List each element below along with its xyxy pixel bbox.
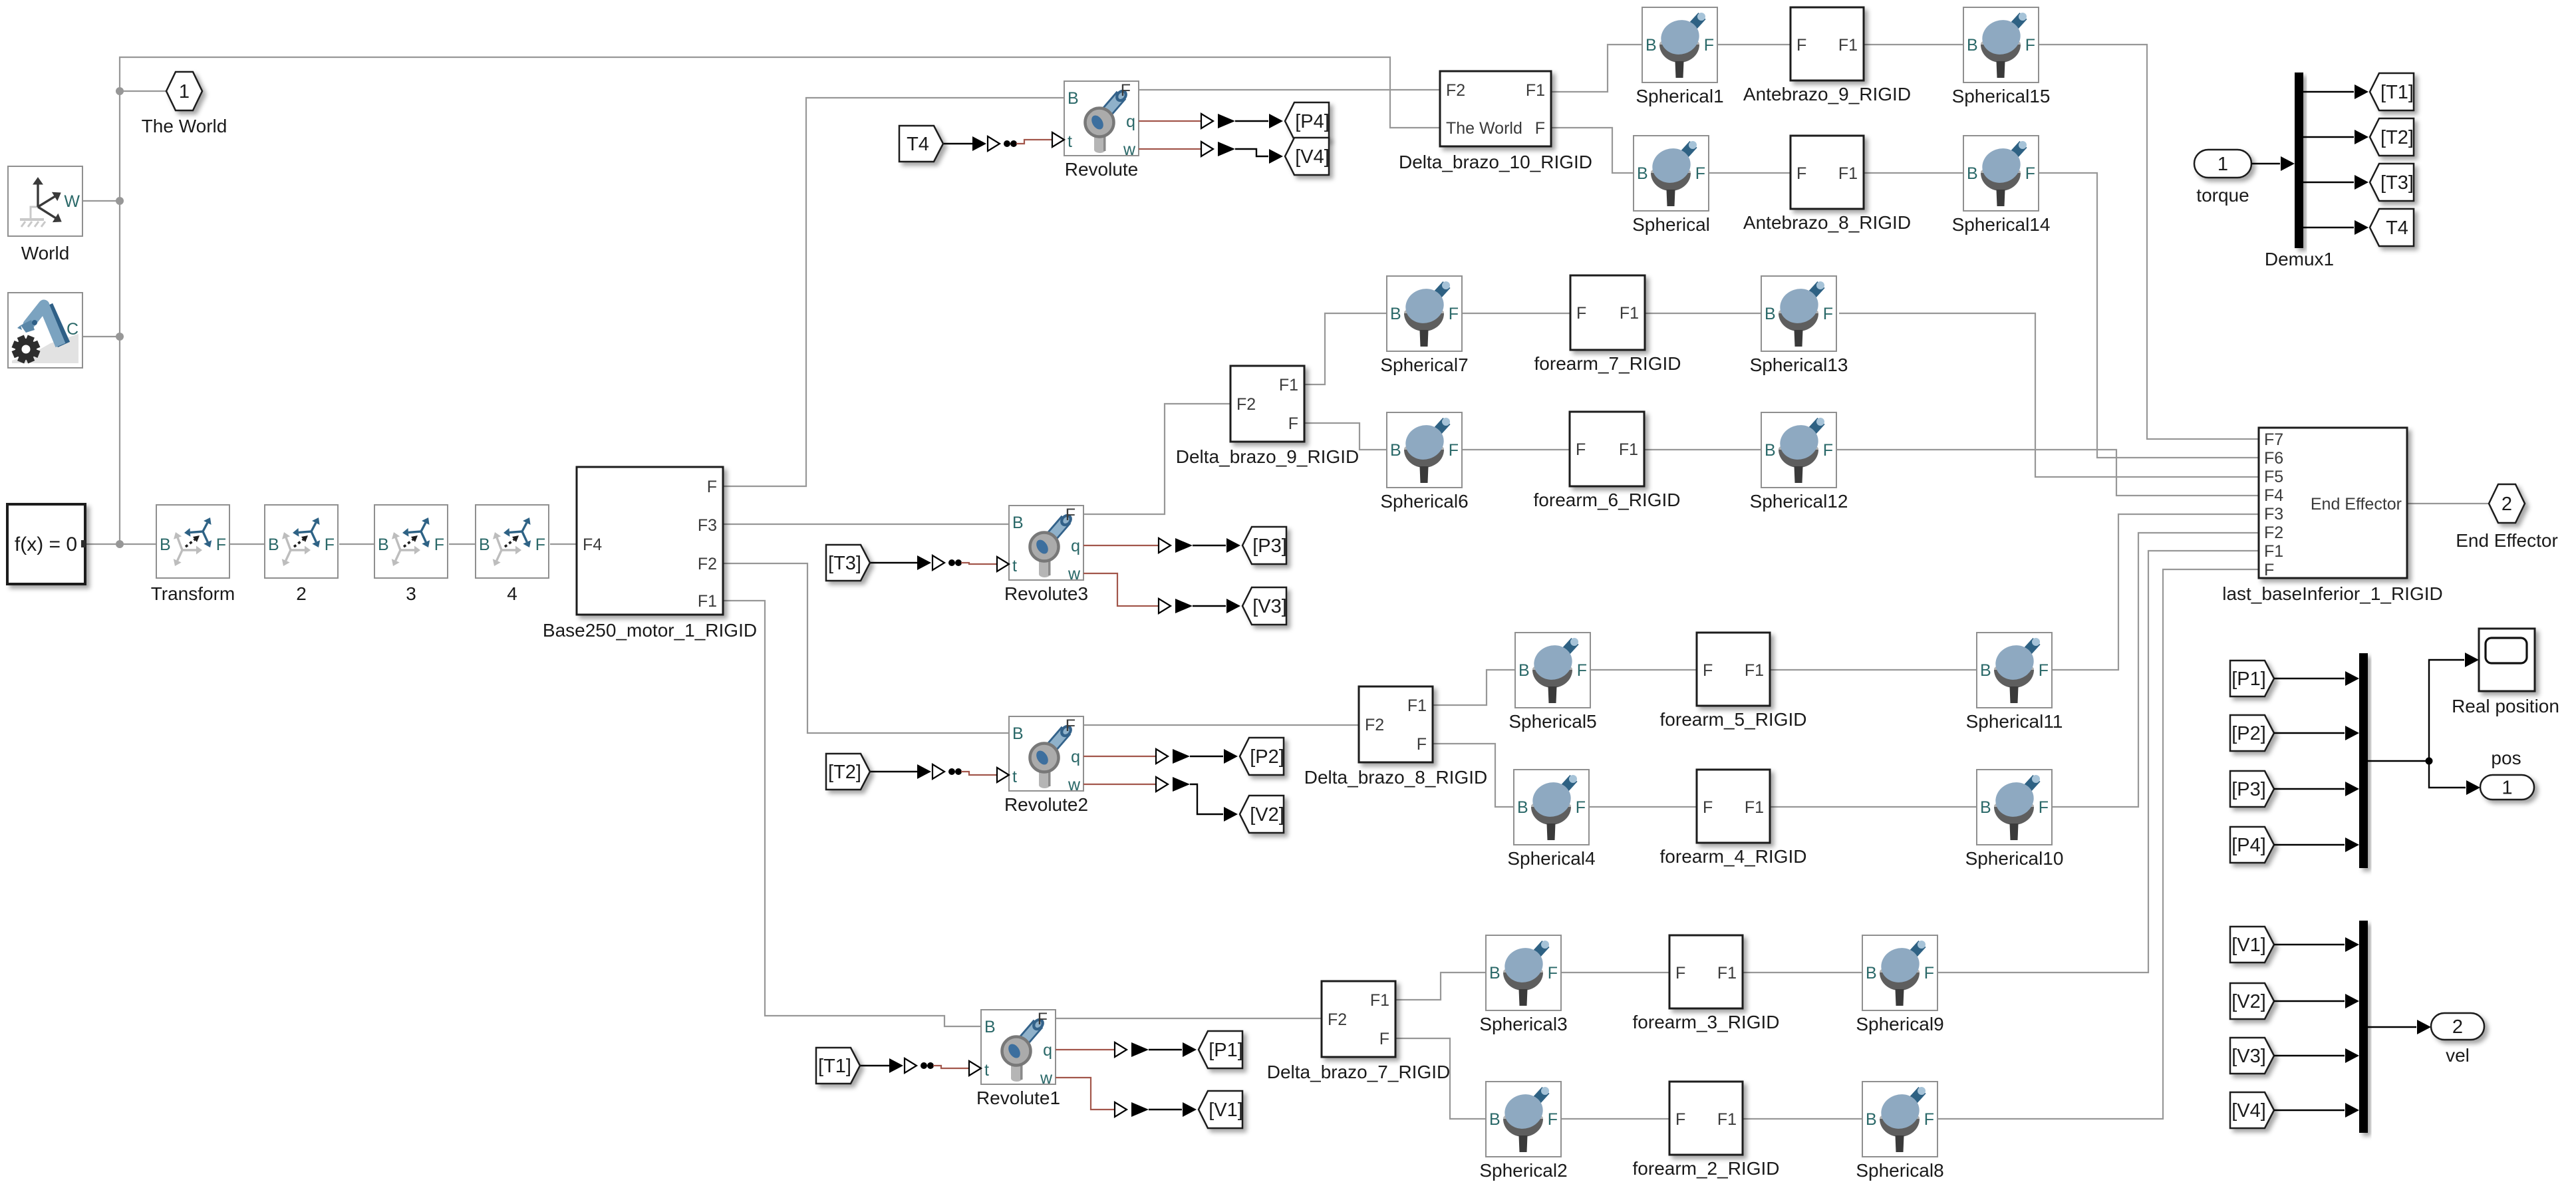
- svg-text:[V2]: [V2]: [2231, 991, 2266, 1012]
- svg-text:B: B: [1068, 89, 1079, 108]
- svg-text:forearm_5_RIGID: forearm_5_RIGID: [1660, 709, 1807, 730]
- svg-text:[V1]: [V1]: [1209, 1100, 1243, 1121]
- signal wire Revolute2 w to [V2]: [1083, 777, 1238, 822]
- goto tag [P2]: [1240, 738, 1284, 775]
- svg-text:2: 2: [2502, 494, 2512, 515]
- svg-text:F: F: [1417, 735, 1427, 754]
- rigid body last_baseInferior_1_RIGID: [2222, 428, 2443, 604]
- rigid body forearm_2_RIGID: [1633, 1082, 1780, 1179]
- svg-text:Spherical11: Spherical11: [1966, 711, 2063, 732]
- wire Base250 F to Revolute B: [723, 98, 1064, 486]
- svg-text:B: B: [378, 535, 389, 554]
- wire 3 F to 4 B: [449, 543, 476, 545]
- spherical joint Spherical1: [1636, 7, 1723, 106]
- svg-text:Spherical13: Spherical13: [1750, 355, 1848, 375]
- svg-text:t: t: [984, 1061, 989, 1080]
- wire Delta_brazo_8 F1 to Spherical5 B: [1433, 670, 1515, 705]
- revolute joint Revolute: [1064, 81, 1139, 180]
- svg-text:F1: F1: [2264, 542, 2283, 561]
- svg-text:Demux1: Demux1: [2265, 249, 2334, 269]
- wire Spherical12 F to last_base F4: [1836, 450, 2259, 496]
- svg-text:Spherical1: Spherical1: [1636, 86, 1723, 106]
- svg-text:w: w: [1040, 1069, 1053, 1088]
- svg-text:4: 4: [507, 583, 517, 604]
- revolute joint Revolute1: [976, 1010, 1060, 1108]
- goto tag [P4]: [1285, 102, 1330, 140]
- signal wire [P1] to mux: [2274, 671, 2359, 686]
- wire solver to Transform B: [85, 543, 156, 545]
- svg-text:F: F: [1823, 441, 1833, 460]
- wire Spherical9 F to last_base F1: [1937, 551, 2259, 973]
- svg-text:F3: F3: [698, 516, 717, 535]
- svg-text:Spherical7: Spherical7: [1380, 355, 1468, 375]
- output port 2 End Effector: [2456, 484, 2558, 551]
- wire Mechanism C to trunk: [82, 336, 120, 337]
- wire Delta_brazo_8 F to Spherical4 B: [1433, 744, 1514, 807]
- rigid body forearm_3_RIGID: [1633, 935, 1780, 1032]
- revolute joint Revolute3: [1004, 506, 1088, 604]
- svg-text:F2: F2: [1446, 81, 1465, 100]
- svg-text:B: B: [1967, 164, 1978, 183]
- svg-text:1: 1: [179, 81, 190, 102]
- svg-text:F1: F1: [1838, 164, 1858, 183]
- svg-text:forearm_3_RIGID: forearm_3_RIGID: [1633, 1012, 1780, 1032]
- wire Delta_brazo_7 F to Spherical2 B: [1395, 1038, 1486, 1119]
- svg-text:w: w: [1123, 140, 1136, 159]
- svg-text:F: F: [1548, 964, 1558, 982]
- svg-text:F: F: [1796, 164, 1806, 183]
- svg-text:[V3]: [V3]: [1252, 596, 1287, 617]
- subsystem Delta_brazo_10_RIGID: [1399, 71, 1592, 172]
- svg-text:F: F: [707, 478, 717, 496]
- svg-text:F1: F1: [1745, 798, 1764, 817]
- svg-text:Revolute2: Revolute2: [1004, 794, 1088, 815]
- from tag [V2]: [2230, 983, 2274, 1019]
- svg-text:F4: F4: [583, 535, 602, 554]
- svg-text:F: F: [1924, 964, 1934, 982]
- svg-text:F2: F2: [1328, 1010, 1347, 1029]
- signal wire [V2] to mux: [2274, 994, 2359, 1008]
- wire Revolute F to Delta_brazo_10 F2: [1139, 89, 1440, 90]
- svg-text:F: F: [1695, 164, 1705, 183]
- svg-text:F1: F1: [1717, 964, 1737, 982]
- wire Base250 F2 to Revolute2 B: [723, 563, 1009, 733]
- rigid body forearm_5_RIGID: [1660, 633, 1807, 730]
- svg-text:B: B: [1646, 36, 1657, 55]
- svg-text:F6: F6: [2264, 449, 2283, 468]
- svg-text:Spherical14: Spherical14: [1952, 214, 2051, 235]
- svg-text:[V4]: [V4]: [1295, 146, 1330, 168]
- signal wire [T1] to t: [860, 1058, 981, 1076]
- spherical joint Spherical12: [1750, 412, 1848, 512]
- svg-text:F1: F1: [1407, 696, 1427, 715]
- mux positions: [2359, 653, 2368, 868]
- svg-text:B: B: [1517, 798, 1528, 817]
- svg-text:Spherical5: Spherical5: [1508, 711, 1596, 732]
- svg-text:[P2]: [P2]: [2231, 723, 2266, 744]
- signal wire Demux1 to T4: [2303, 220, 2368, 235]
- goto tag [V1]: [1199, 1091, 1243, 1128]
- wire Revolute2 F to Delta_brazo_8 F2: [1083, 724, 1359, 726]
- svg-text:F: F: [1449, 441, 1459, 460]
- svg-text:F1: F1: [1370, 991, 1389, 1010]
- svg-text:B: B: [1866, 1110, 1877, 1129]
- svg-text:forearm_6_RIGID: forearm_6_RIGID: [1534, 490, 1681, 510]
- from tag [T1]: [816, 1048, 860, 1084]
- goto tag [P1]: [1199, 1031, 1243, 1068]
- svg-text:[T2]: [T2]: [2380, 127, 2414, 148]
- svg-text:Spherical10: Spherical10: [1965, 848, 2064, 869]
- spherical joint Spherical9: [1856, 935, 1943, 1034]
- wire Delta_brazo_10 F to Spherical B: [1551, 128, 1634, 173]
- demux Demux1: [2265, 73, 2334, 269]
- rigid body Base250_motor_1_RIGID: [543, 467, 757, 641]
- from tag [T3]: [826, 545, 870, 581]
- signal wire [P3] to mux: [2274, 782, 2359, 796]
- svg-text:F: F: [1576, 798, 1586, 817]
- wire Spherical10 F to last_base F2: [2052, 533, 2259, 807]
- svg-text:Spherical4: Spherical4: [1507, 848, 1595, 869]
- svg-text:forearm_7_RIGID: forearm_7_RIGID: [1534, 353, 1681, 374]
- signal wire Revolute q to [P4]: [1139, 114, 1283, 128]
- from tag T4: [899, 126, 943, 162]
- svg-text:F: F: [1548, 1110, 1558, 1129]
- transform block 4: [476, 505, 549, 604]
- svg-text:F2: F2: [2264, 524, 2283, 542]
- svg-text:[V1]: [V1]: [2231, 935, 2266, 956]
- svg-text:1: 1: [2502, 778, 2512, 799]
- wire Antebrazo_8 F1 to Spherical14 B: [1864, 172, 1963, 174]
- svg-text:B: B: [1980, 798, 1991, 817]
- signal wire Demux1 to [T1]: [2303, 84, 2368, 99]
- svg-text:The World: The World: [1446, 119, 1522, 138]
- wire forearm_4 F1 to Spherical10 B: [1770, 806, 1977, 808]
- subsystem Delta_brazo_7_RIGID: [1267, 981, 1450, 1082]
- rigid body forearm_4_RIGID: [1660, 770, 1807, 867]
- svg-text:B: B: [160, 535, 171, 554]
- svg-text:pos: pos: [2491, 748, 2521, 768]
- svg-text:F1: F1: [1526, 81, 1545, 100]
- svg-text:[T3]: [T3]: [828, 553, 861, 574]
- signal wire torque to Demux1: [2251, 156, 2295, 171]
- svg-text:[V3]: [V3]: [2231, 1046, 2266, 1067]
- solver block f(x)=0: [7, 504, 86, 584]
- svg-text:Delta_brazo_10_RIGID: Delta_brazo_10_RIGID: [1399, 152, 1592, 172]
- svg-text:F: F: [1066, 716, 1075, 735]
- wire Delta_brazo_7 F1 to Spherical3 B: [1395, 973, 1486, 1000]
- svg-text:F: F: [1675, 1110, 1685, 1129]
- subsystem Delta_brazo_8_RIGID: [1304, 686, 1487, 788]
- svg-text:F: F: [1379, 1030, 1389, 1048]
- svg-text:F7: F7: [2264, 430, 2283, 449]
- svg-text:Base250_motor_1_RIGID: Base250_motor_1_RIGID: [543, 620, 757, 641]
- svg-text:B: B: [1390, 441, 1401, 460]
- signal wire [P4] to mux: [2274, 837, 2359, 852]
- svg-text:B: B: [1637, 164, 1648, 183]
- svg-text:2: 2: [2452, 1016, 2463, 1038]
- svg-text:B: B: [1390, 305, 1401, 323]
- svg-text:t: t: [1012, 768, 1017, 786]
- transform block 3: [374, 505, 448, 604]
- spherical joint Spherical15: [1952, 7, 2051, 106]
- scope Real position: [2452, 629, 2559, 716]
- svg-text:[T3]: [T3]: [2380, 172, 2414, 194]
- svg-text:t: t: [1068, 132, 1072, 151]
- svg-text:F: F: [216, 535, 226, 554]
- spherical joint Spherical11: [1966, 633, 2063, 732]
- svg-text:B: B: [268, 535, 279, 554]
- goto tag [T2]: [2370, 118, 2414, 156]
- svg-text:The World: The World: [142, 116, 227, 136]
- svg-text:F: F: [2264, 561, 2274, 579]
- svg-text:Antebrazo_8_RIGID: Antebrazo_8_RIGID: [1743, 212, 1911, 233]
- svg-text:Transform: Transform: [151, 583, 235, 604]
- spherical joint Spherical7: [1380, 276, 1468, 375]
- svg-text:F: F: [1038, 1010, 1048, 1028]
- svg-text:q: q: [1043, 1041, 1052, 1060]
- svg-text:T4: T4: [907, 134, 929, 155]
- goto tag [T1]: [2370, 73, 2414, 110]
- wire Spherical11 F to last_base F3: [2052, 514, 2259, 670]
- svg-text:[P3]: [P3]: [2231, 779, 2266, 800]
- wire world trunk to Delta_brazo_10 The World port: [120, 57, 1440, 544]
- svg-text:B: B: [1012, 514, 1024, 532]
- svg-text:[T1]: [T1]: [2380, 82, 2414, 103]
- svg-text:B: B: [1765, 441, 1776, 460]
- from tag [V1]: [2230, 927, 2274, 963]
- svg-text:F: F: [535, 535, 545, 554]
- svg-text:forearm_2_RIGID: forearm_2_RIGID: [1633, 1158, 1780, 1179]
- svg-text:F: F: [434, 535, 444, 554]
- svg-text:[V4]: [V4]: [2231, 1100, 2266, 1122]
- wire Spherical14 F to last_base F6: [2039, 173, 2259, 458]
- output port 2 vel: [2431, 1013, 2484, 1066]
- from tag [T2]: [826, 754, 870, 790]
- svg-text:1: 1: [2218, 154, 2228, 175]
- signal wire Revolute w to [V4]: [1139, 142, 1283, 164]
- svg-text:Delta_brazo_9_RIGID: Delta_brazo_9_RIGID: [1176, 446, 1359, 467]
- wire Delta_brazo_9 F1 to Spherical7 B: [1304, 313, 1387, 384]
- svg-text:Spherical6: Spherical6: [1380, 491, 1468, 512]
- svg-text:F: F: [1703, 661, 1713, 680]
- wire last_base End Effector to port 2: [2407, 503, 2489, 504]
- svg-text:B: B: [1489, 1110, 1501, 1129]
- svg-text:F: F: [1577, 661, 1587, 680]
- signal wire Demux1 to [T2]: [2303, 130, 2368, 144]
- svg-text:f(x) = 0: f(x) = 0: [15, 533, 77, 555]
- svg-text:B: B: [1489, 964, 1501, 982]
- svg-text:F3: F3: [2264, 505, 2283, 524]
- svg-text:F1: F1: [1620, 304, 1639, 323]
- wire Spherical2 F to forearm_2 F: [1561, 1118, 1669, 1120]
- wire Spherical3 F to forearm_3 F: [1561, 972, 1669, 973]
- svg-text:Spherical15: Spherical15: [1952, 86, 2051, 106]
- svg-text:Spherical2: Spherical2: [1479, 1160, 1567, 1181]
- svg-text:World: World: [21, 243, 70, 263]
- transform block 2: [265, 505, 338, 604]
- wire Base250 F3 to Revolute3 B: [723, 524, 1009, 525]
- signal wire Revolute2 q to [P2]: [1083, 749, 1238, 764]
- goto tag [V2]: [1240, 796, 1284, 833]
- wire Revolute3 F to Delta_brazo_9 F2: [1083, 404, 1230, 514]
- svg-text:F: F: [1675, 964, 1685, 982]
- wire Spherical F to Antebrazo_8 F: [1709, 172, 1790, 174]
- svg-text:w: w: [1068, 776, 1081, 794]
- wire World W to trunk: [82, 200, 120, 202]
- svg-text:w: w: [1068, 565, 1081, 583]
- from tag [V4]: [2230, 1092, 2274, 1128]
- signal wire Revolute1 w to [V1]: [1056, 1078, 1197, 1117]
- signal wire Demux1 to [T3]: [2303, 175, 2368, 190]
- svg-text:F: F: [1576, 440, 1586, 459]
- wire Spherical1 F to Antebrazo_9 F: [1717, 44, 1790, 45]
- rigid body Antebrazo_9_RIGID: [1743, 7, 1911, 104]
- wire Revolute1 F to Delta_brazo_7 F2: [1056, 1018, 1322, 1019]
- wire Spherical6 F to forearm_6 F: [1462, 449, 1570, 450]
- spherical joint Spherical8: [1856, 1082, 1943, 1181]
- svg-text:Spherical8: Spherical8: [1856, 1160, 1943, 1181]
- wire Spherical15 F to last_base F7: [2039, 45, 2259, 439]
- wire forearm_2 F1 to Spherical8 B: [1743, 1118, 1862, 1120]
- from tag [P2]: [2230, 715, 2274, 751]
- signal wire Revolute1 q to [P1]: [1056, 1042, 1197, 1057]
- wire Spherical7 F to forearm_7 F: [1462, 313, 1570, 314]
- svg-text:F: F: [1535, 119, 1545, 138]
- signal wire mux to scope and pos: [2368, 653, 2480, 795]
- svg-text:F1: F1: [1279, 376, 1298, 394]
- svg-text:[P1]: [P1]: [2231, 669, 2266, 690]
- svg-text:B: B: [1967, 36, 1978, 55]
- svg-text:F: F: [2039, 798, 2049, 817]
- svg-text:[V2]: [V2]: [1250, 804, 1284, 825]
- svg-text:F: F: [1703, 798, 1713, 817]
- svg-text:F5: F5: [2264, 468, 2283, 486]
- transform block Transform: [151, 505, 235, 604]
- spherical joint Spherical10: [1965, 770, 2064, 869]
- from tag [P1]: [2230, 661, 2274, 696]
- signal wire T4 to t: [943, 132, 1064, 151]
- from tag [P3]: [2230, 771, 2274, 807]
- svg-text:q: q: [1071, 748, 1080, 766]
- wire The World port 1 stub: [120, 90, 166, 92]
- svg-text:F1: F1: [1745, 661, 1764, 680]
- spherical joint Spherical13: [1750, 276, 1848, 375]
- goto tag [V4]: [1285, 138, 1330, 175]
- svg-text:Spherical3: Spherical3: [1479, 1014, 1567, 1034]
- svg-text:C: C: [67, 320, 78, 339]
- svg-text:Spherical12: Spherical12: [1750, 491, 1848, 512]
- rigid body Antebrazo_8_RIGID: [1743, 136, 1911, 233]
- wire Transform F to 2 B: [229, 543, 265, 545]
- signal wire [T3] to t: [870, 555, 1009, 571]
- signal wire [T2] to t: [870, 764, 1009, 782]
- svg-text:F: F: [2025, 36, 2035, 55]
- svg-text:W: W: [64, 192, 80, 211]
- svg-text:Delta_brazo_8_RIGID: Delta_brazo_8_RIGID: [1304, 767, 1487, 788]
- from tag [V3]: [2230, 1038, 2274, 1074]
- svg-text:F: F: [1576, 304, 1586, 323]
- svg-text:q: q: [1071, 537, 1080, 555]
- svg-text:F: F: [1796, 36, 1806, 55]
- svg-text:[T2]: [T2]: [828, 762, 861, 783]
- svg-text:Real position: Real position: [2452, 696, 2559, 716]
- goto tag [T3]: [2370, 164, 2414, 201]
- svg-text:End Effector: End Effector: [2456, 530, 2558, 551]
- revolute joint Revolute2: [1004, 716, 1088, 815]
- svg-text:F2: F2: [1365, 716, 1384, 734]
- wire forearm_3 F1 to Spherical9 B: [1743, 972, 1862, 973]
- svg-text:B: B: [1012, 724, 1024, 743]
- svg-text:End Effector: End Effector: [2311, 495, 2402, 514]
- svg-text:B: B: [1518, 661, 1530, 680]
- svg-text:F1: F1: [1838, 36, 1858, 55]
- svg-text:[P4]: [P4]: [1295, 111, 1330, 132]
- svg-text:F1: F1: [1619, 440, 1638, 459]
- svg-text:[P4]: [P4]: [2231, 835, 2266, 856]
- signal wire [V1] to mux: [2274, 937, 2359, 952]
- svg-text:F: F: [2025, 164, 2035, 183]
- wire Antebrazo_9 F1 to Spherical15 B: [1864, 44, 1963, 45]
- spherical joint Spherical6: [1380, 412, 1468, 512]
- wire Spherical5 F to forearm_5 F: [1590, 669, 1697, 671]
- svg-text:F: F: [1823, 305, 1833, 323]
- signal wire [P2] to mux: [2274, 726, 2359, 740]
- svg-text:F: F: [1066, 506, 1075, 524]
- svg-text:vel: vel: [2446, 1045, 2470, 1066]
- svg-text:2: 2: [296, 583, 307, 604]
- wire 2 F to 3 B: [339, 543, 374, 545]
- svg-text:F: F: [1704, 36, 1714, 55]
- svg-text:Revolute: Revolute: [1065, 159, 1139, 180]
- svg-text:B: B: [984, 1018, 996, 1036]
- svg-text:F4: F4: [2264, 486, 2283, 505]
- wire 4 F to Base250 F4: [550, 543, 577, 545]
- spherical joint Spherical14: [1952, 136, 2051, 235]
- spherical joint Spherical2: [1479, 1082, 1567, 1181]
- rigid body forearm_7_RIGID: [1534, 275, 1681, 374]
- signal wire mux to vel: [2368, 1020, 2431, 1034]
- signal wire Revolute3 q to [P3]: [1083, 538, 1240, 553]
- svg-text:B: B: [1980, 661, 1991, 680]
- rigid body forearm_6_RIGID: [1534, 412, 1681, 510]
- subsystem Delta_brazo_9_RIGID: [1176, 366, 1359, 467]
- svg-text:Spherical: Spherical: [1632, 214, 1710, 235]
- svg-text:torque: torque: [2196, 185, 2249, 206]
- mechanism configuration block: [8, 293, 82, 368]
- wire Spherical4 F to forearm_4 F: [1589, 806, 1697, 808]
- svg-text:Revolute1: Revolute1: [976, 1088, 1060, 1108]
- svg-text:Antebrazo_9_RIGID: Antebrazo_9_RIGID: [1743, 84, 1911, 104]
- svg-text:F2: F2: [698, 555, 717, 573]
- wire Delta_brazo_9 F to Spherical6 B: [1304, 423, 1387, 450]
- svg-text:[P3]: [P3]: [1252, 535, 1287, 557]
- svg-text:[T1]: [T1]: [818, 1056, 851, 1077]
- svg-text:B: B: [1765, 305, 1776, 323]
- svg-text:Revolute3: Revolute3: [1004, 583, 1088, 604]
- spherical joint Spherical3: [1479, 935, 1567, 1034]
- wire forearm_7 F1 to Spherical13 B: [1645, 313, 1761, 314]
- svg-text:[P2]: [P2]: [1250, 746, 1284, 768]
- svg-text:F2: F2: [1236, 395, 1256, 414]
- wire Delta_brazo_10 F1 to Spherical1 B: [1551, 45, 1642, 92]
- svg-text:F: F: [1449, 305, 1459, 323]
- spherical joint Spherical5: [1508, 633, 1596, 732]
- signal wire [V3] to mux: [2274, 1048, 2359, 1063]
- svg-text:F: F: [325, 535, 335, 554]
- svg-text:B: B: [479, 535, 490, 554]
- output port 1 pos: [2480, 748, 2534, 800]
- svg-text:last_baseInferior_1_RIGID: last_baseInferior_1_RIGID: [2222, 583, 2443, 604]
